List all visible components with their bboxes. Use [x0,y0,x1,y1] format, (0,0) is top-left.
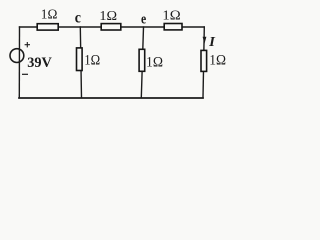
voltage source V1 39V [10,49,24,63]
svg-text:I: I [208,34,216,49]
wire bottom rail [19,97,203,99]
current arrow I [203,37,207,44]
resistor R6 (shunt right, vertical) [201,50,207,71]
wire node e branch [141,27,143,98]
resistor R1 (top left, horizontal) [37,24,58,30]
svg-text:1Ω: 1Ω [84,53,100,69]
svg-text:c: c [75,10,81,27]
plus sign of source [25,42,30,47]
svg-text:1Ω: 1Ω [41,8,58,23]
svg-text:1Ω: 1Ω [146,55,163,71]
wire left branch [18,27,20,98]
resistor R4 (shunt at node c, vertical) [77,48,83,71]
svg-text:1Ω: 1Ω [209,53,226,69]
resistor R2 (top middle, horizontal) [101,24,121,30]
resistor R3 (top right, horizontal) [164,24,182,30]
svg-text:e: e [141,11,146,27]
resistor R5 (shunt at node e, vertical) [139,49,145,71]
wire node c branch [80,27,81,98]
wire right branch [203,27,204,98]
minus sign of source [22,73,28,75]
svg-text:39V: 39V [27,55,52,71]
wire top rail [20,26,205,28]
svg-text:1Ω: 1Ω [99,9,117,24]
svg-text:1Ω: 1Ω [162,9,180,24]
